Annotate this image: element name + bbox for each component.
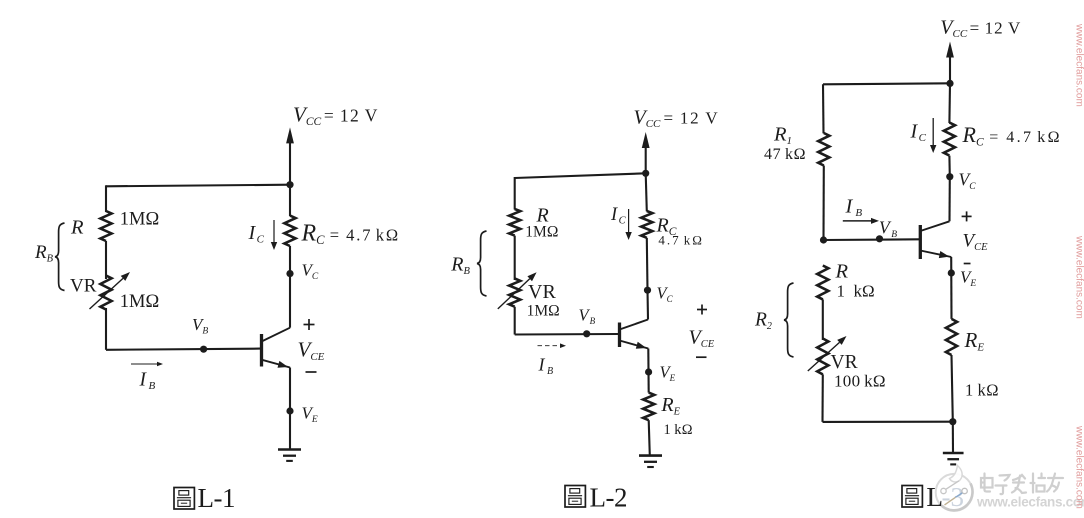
svg-text:R1: R1 [773,124,792,148]
watermark logo component lead upper [941,481,959,494]
wire collector to VC (circuit 3) [948,177,950,222]
wire top rail (circuit 1) [106,185,290,187]
caption glyph tu (circuit 3) [902,486,922,508]
svg-text:RE: RE [964,328,985,354]
svg-text:R: R [70,217,84,239]
node junction base rail / divider (circuit 3) [820,236,827,243]
wire VR to bottom rail (circuit 3) [821,374,823,422]
potentiometer VR 1 Mohm zigzag (circuit 2) [509,279,520,307]
wire RC bottom lead (circuit 1) [289,246,291,274]
potentiometer VR wiper arrow (circuit 3) [808,336,847,371]
node VB (circuit 2) [583,330,590,337]
current arrow IB dashed (circuit 2) [538,343,567,348]
svg-text:RB: RB [450,254,470,278]
node VC (circuit 1) [286,270,293,277]
transistor Q2 (circuit 2) [620,320,649,349]
svg-text:VCC = 12 V: VCC = 12 V [940,17,1021,41]
wire RE to ground (circuit 2) [649,420,650,455]
svg-text:1 kΩ: 1 kΩ [664,422,693,438]
wire RE to bottom junction (circuit 3) [952,355,953,422]
minus sign VCE (circuit 1) [306,371,317,373]
potentiometer VR wiper arrow (circuit 1) [90,272,131,309]
wire bottom rail (circuit 3) [823,421,953,423]
wire between R and VR (circuit 1) [105,241,107,279]
node junction bottom rail / emitter branch (circuit 3) [949,418,956,425]
svg-text:R2: R2 [754,310,772,333]
node VE (circuit 2) [645,368,652,375]
resistor RC 4.7 kohm (circuit 3) [944,123,955,156]
transistor Q3 (circuit 3) [920,221,951,259]
svg-text:4.7 kΩ: 4.7 kΩ [658,233,704,248]
svg-text:RC = 4.7 kΩ: RC = 4.7 kΩ [301,221,401,248]
resistor R 1 Mohm (circuit 2) [509,209,520,236]
resistor R1 47 kohm (circuit 3) [818,133,829,166]
watermark logo circle [936,474,973,511]
svg-text:R: R [835,261,849,283]
svg-text:IC: IC [910,121,927,145]
ground (circuit 3) [943,453,964,464]
wire between R and VR (circuit 3) [822,299,824,340]
plus sign VCE (circuit 3) [962,211,972,221]
svg-text:1 kΩ: 1 kΩ [965,381,999,400]
current arrow IC (circuit 1) [271,220,277,250]
svg-text:RE: RE [660,394,680,418]
node VE (circuit 1) [286,407,293,414]
svg-text:VCC = 12 V: VCC = 12 V [634,107,720,131]
resistor RC 4.7 kohm (circuit 2) [641,211,652,238]
resistor RE 1 kohm (circuit 2) [643,393,654,421]
current arrow IB (circuit 3) [843,218,879,224]
svg-text:1MΩ: 1MΩ [527,303,560,320]
brace RB (circuit 2) [477,231,487,296]
svg-text:VCE: VCE [689,327,715,351]
wire left branch upper (circuit 1) [105,185,107,212]
node VE (circuit 3) [948,269,955,276]
svg-text:100 kΩ: 100 kΩ [834,372,886,391]
wire base rail (circuit 1) [106,349,260,350]
svg-text:1MΩ: 1MΩ [120,292,159,312]
ground (circuit 2) [639,456,662,467]
svg-text:1 kΩ: 1 kΩ [837,282,875,301]
svg-text:VB: VB [879,218,897,241]
wire left branch lower (circuit 2) [514,307,516,335]
potentiometer VR 100 kohm zigzag (circuit 3) [817,339,828,375]
power supply Vcc arrow (circuit 2) [642,132,650,174]
current arrow IC (circuit 3) [930,118,936,153]
wire RC top lead (circuit 1) [289,185,291,216]
wire base rail (circuit 2) [515,333,618,336]
svg-text:IB: IB [845,196,863,220]
svg-text:VC: VC [657,284,674,305]
node junction top rail / collector branch (circuit 2) [642,170,649,177]
power supply Vcc arrow (circuit 3) [946,42,954,84]
wire collector to VC (circuit 1) [289,274,291,328]
svg-text:www.elecfans.com: www.elecfans.com [1074,23,1084,107]
watermark logo component lead lower with blue tip [945,488,968,505]
svg-text:-3: -3 [942,482,965,512]
wire top rail (circuit 3) [823,83,950,84]
wire RC top lead (circuit 3) [948,83,951,123]
svg-text:L-2: L-2 [590,483,627,513]
plus sign VCE (circuit 2) [697,305,707,315]
plus sign VCE (circuit 1) [304,319,315,330]
resistor RE 1 kohm (circuit 3) [946,319,957,355]
wire RC bottom lead (circuit 2) [646,238,649,291]
svg-text:www.elecfans.com: www.elecfans.com [1074,235,1084,319]
svg-text:IC: IC [610,205,627,227]
svg-text:L: L [927,482,944,512]
wire between R and VR (circuit 2) [514,236,516,280]
wire left branch upper (circuit 2) [514,177,516,210]
svg-text:VC: VC [959,170,977,193]
wire RC bottom lead (circuit 3) [948,156,950,177]
caption glyph tu (circuit 1) [174,488,194,510]
svg-text:VC: VC [302,261,319,283]
svg-text:1MΩ: 1MΩ [525,224,558,241]
node junction top rail / collector branch (circuit 1) [286,181,293,188]
svg-text:VCE: VCE [298,338,325,364]
wire top rail (circuit 2) [515,173,646,178]
wire base rail (circuit 3) [824,238,920,241]
svg-text:VR: VR [70,276,97,297]
wire left branch lower (circuit 1) [105,308,107,350]
resistor R 1 kohm divider (circuit 3) [817,266,828,300]
brace R2 (circuit 3) [784,283,794,357]
svg-text:VE: VE [302,404,318,426]
node VC (circuit 3) [946,173,953,180]
ground (circuit 1) [278,450,301,461]
svg-text:L-1: L-1 [198,483,235,513]
power supply Vcc arrow (circuit 1) [286,127,294,185]
wire emitter to VE (circuit 2) [647,349,650,393]
svg-text:VB: VB [192,315,208,337]
wire RC top lead (circuit 2) [646,173,647,211]
minus sign VCE (circuit 3) [964,263,971,265]
current arrow IC (circuit 2) [625,209,631,240]
svg-text:www.elecfans.com: www.elecfans.com [1074,425,1084,509]
minus sign VCE (circuit 2) [696,356,707,358]
svg-text:IB: IB [538,355,554,378]
svg-text:VCC = 12 V: VCC = 12 V [293,103,379,129]
wire emitter to ground (circuit 1) [289,368,291,450]
svg-text:www.elecfans.com: www.elecfans.com [976,495,1084,510]
wire R1 to base rail (circuit 3) [822,166,824,241]
watermark logo sprout tail [950,466,963,482]
transistor Q1 (circuit 1) [262,328,291,368]
svg-text:RC = 4.7 kΩ: RC = 4.7 kΩ [962,122,1062,149]
potentiometer VR wiper arrow (circuit 2) [498,272,537,309]
svg-text:VR: VR [528,281,556,303]
resistor R 1 Mohm (circuit 1) [100,211,111,241]
svg-text:VE: VE [660,363,676,384]
wire bottom junction to ground (circuit 3) [952,422,954,453]
wire collector to VC (circuit 2) [646,290,649,319]
wire left branch upper (circuit 3) [822,84,825,133]
wire emitter to RE (circuit 3) [950,257,952,319]
watermark text dian-zi-fa-shao-you (fake glyph strokes) [981,474,1063,495]
svg-text:IB: IB [139,370,156,393]
svg-text:1MΩ: 1MΩ [120,210,159,230]
node junction top rail / collector branch (circuit 3) [946,80,953,87]
resistor RC 4.7 kohm (circuit 1) [284,216,295,246]
node VB (circuit 1) [200,346,207,353]
node VB (circuit 3) [876,235,883,242]
node VC (circuit 2) [644,287,651,294]
svg-text:47 kΩ: 47 kΩ [764,146,806,163]
svg-text:VE: VE [960,268,976,290]
potentiometer VR 1 Mohm zigzag (circuit 1) [100,276,111,310]
svg-text:VB: VB [579,306,596,327]
caption glyph tu (circuit 2) [565,486,585,508]
svg-text:VR: VR [831,352,858,373]
current arrow IB (circuit 1) [131,362,163,367]
svg-text:VCE: VCE [963,231,989,254]
svg-text:RB: RB [34,242,54,265]
svg-text:IC: IC [248,222,265,246]
brace RB (circuit 1) [55,223,65,291]
